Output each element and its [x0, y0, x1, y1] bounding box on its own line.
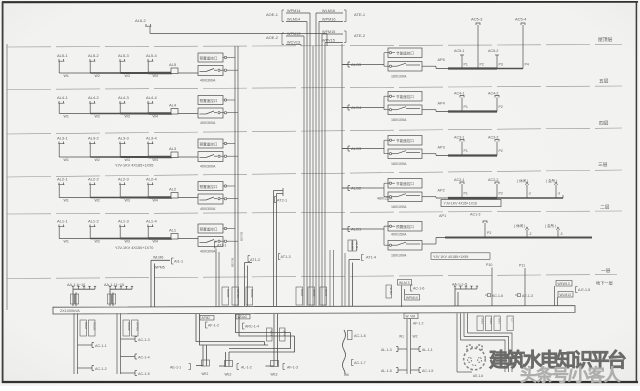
wire riser tap to AP3 [342, 148, 384, 150]
branch circuit AC5-1 [461, 55, 463, 69]
reserved branch (会所) of AP1 [557, 230, 559, 238]
feeder bus of panel AL5 [59, 72, 90, 74]
panel AP2 bus [422, 196, 436, 198]
feeder tag boxes WE4/WP4 [267, 328, 273, 341]
remote-control interface box of AL4 [198, 96, 223, 105]
terminal WE1 with feeder AF-1-1 [202, 345, 204, 366]
riser tag boxes above bus (WLM/WPM) [222, 287, 229, 305]
riser bundle vertical wires [303, 46, 305, 308]
main switch box of AL1 with contact [198, 237, 223, 247]
drawing frame border inner-left [6, 44, 8, 310]
energy-saving control box of AP1 [388, 222, 422, 232]
wire riser tap to AP1 [342, 228, 384, 230]
floor divider line - level 1 [7, 275, 617, 279]
feeder tag WLM3 box [236, 314, 250, 319]
branch circuit AC2-2 [496, 184, 498, 198]
branch AL-1-5 [398, 369, 407, 371]
reserved branch (会所) dashed [555, 185, 557, 198]
drawing frame border top [2, 1, 638, 4]
wire AL6-2 to riser bundle [150, 33, 327, 35]
cable tag box YJV 1KV 4x185+1x95 at level 1 [431, 253, 490, 259]
reserved branch (休闲) dashed [526, 185, 528, 198]
riser tap ALG4 [342, 107, 348, 109]
branch AL-1-1 [411, 348, 420, 350]
wire riser tap to AP2 [342, 187, 384, 189]
outgoing feeder tags WLM3/WPM10 with AC-1-6 [386, 285, 392, 298]
floor divider line - roof level [7, 45, 622, 48]
feeder AT2-1 / AT1-3 riser pair [273, 191, 275, 307]
bus end tick of AP2 [562, 195, 564, 198]
panel AP1 bus [422, 243, 436, 245]
branch circuit AC3-1 [461, 142, 463, 156]
main switch box of AL4 with contact [198, 108, 223, 118]
spare cable (wavy) with AC-1-8 [343, 330, 346, 374]
floor divider line - level 4 [7, 128, 622, 134]
switch box of AP5 [388, 62, 422, 72]
branch circuit AC3-2 [496, 142, 498, 156]
remote-control interface box of AL3 [198, 139, 223, 148]
spare breaker AE-1-3 symbol [515, 294, 518, 296]
energy-saving control box of AP5 [388, 48, 422, 58]
panel AP4 bus [422, 109, 436, 111]
wire riser tap to AP5 [342, 64, 384, 66]
switch box of AP3 [388, 149, 422, 159]
terminal WE2 with feeder AL-1-2 [225, 352, 227, 366]
feeder bus of panel AL3 [59, 156, 90, 158]
branch circuit AC5-4 rooftop [522, 25, 524, 69]
branch circuit AC1-3 [484, 223, 486, 238]
riser tap ALG2 [342, 187, 348, 189]
feeder tag WLM13 [558, 292, 573, 298]
outgoing riser group 1 (AC-1-1 / AC-1-2) [73, 313, 75, 374]
drawing frame border left [2, 2, 4, 383]
branch circuit AC4-2 [496, 98, 498, 112]
left riser pair to AL panels [234, 46, 236, 308]
feeder bus of panel AL2 [59, 197, 90, 199]
riser tap ALG5 [342, 64, 348, 66]
feeder bus of panel AL4 [59, 113, 90, 115]
transfer switching wire nest [196, 314, 265, 342]
terminal WE3 with feeder AF-1-3 [273, 314, 275, 366]
wire drops of WEW13 group [554, 286, 556, 306]
outgoing riser group AL (W_VM tags) [404, 313, 418, 319]
branch circuit AC4-1 [461, 98, 463, 112]
white page margin strips [0, 0, 640, 1]
floor divider line - level 5 [7, 86, 622, 90]
wire riser tap to AP4 [342, 107, 384, 109]
outgoing riser group AE (right) [456, 313, 458, 372]
feeder tag AFM2 box [200, 315, 214, 320]
outgoing riser group 2 (AC-1-3/4/5) [116, 313, 118, 374]
switch box of AP4 [388, 105, 422, 115]
floor divider line - level 3 [7, 170, 622, 177]
switch box of AP1 [388, 241, 422, 251]
spare breaker AC-1-6 symbol [485, 294, 488, 296]
remote-control interface box of AL1 [198, 224, 223, 233]
drawing frame border right [635, 2, 637, 383]
main switch box of AL2 with contact [198, 194, 223, 204]
branch circuit AC2-1 [461, 184, 463, 198]
bottom connection line right group [457, 371, 472, 373]
feeder AT1-2 [244, 263, 246, 307]
branch AC-1-5 right [411, 369, 420, 371]
energy-saving control box of AP4 [388, 92, 422, 102]
remote-control interface box of AL2 [198, 182, 223, 191]
floor divider line - level 2 [7, 211, 622, 214]
reserved branch (休闲) of AP1 [526, 230, 528, 238]
riser tap ALG3 [342, 148, 348, 150]
main low-voltage switchboard bus 2x1000kVA [53, 306, 575, 314]
extra riser wires near bundle [329, 250, 331, 307]
feeder bus of panel AL1 [59, 238, 90, 240]
branch circuit AC5-3 rooftop [477, 25, 479, 69]
main switch box of AL3 with contact [198, 152, 223, 162]
drawing frame border bottom [2, 381, 638, 383]
watermark logo circle [464, 345, 486, 370]
energy-saving control box of AP2 [388, 179, 422, 189]
feeder AI1-1 [151, 259, 170, 261]
feeder tag boxes WLM5/WLM3 rotated [348, 240, 352, 251]
main switch box of AL5 with contact [198, 66, 223, 76]
riser tag boxes right group [477, 316, 483, 331]
riser tap ALG1 [342, 228, 348, 230]
remote-control interface box of AL5 [198, 53, 223, 62]
branch AL-1-3 [398, 348, 407, 350]
panel AP5 bus [422, 65, 436, 67]
energy-saving control box of AP3 [388, 136, 422, 146]
feeder tag WEW13 [556, 281, 572, 287]
switch box of AP2 [388, 192, 422, 202]
panel AP3 bus [422, 153, 436, 155]
branch circuit AC5-2 [496, 55, 498, 69]
feeder AT1-4 [349, 259, 360, 261]
cable tag box YJV-1kV 4x35+1x16 of AP1 [441, 200, 501, 207]
riser WLG to ALG panels [341, 44, 343, 308]
